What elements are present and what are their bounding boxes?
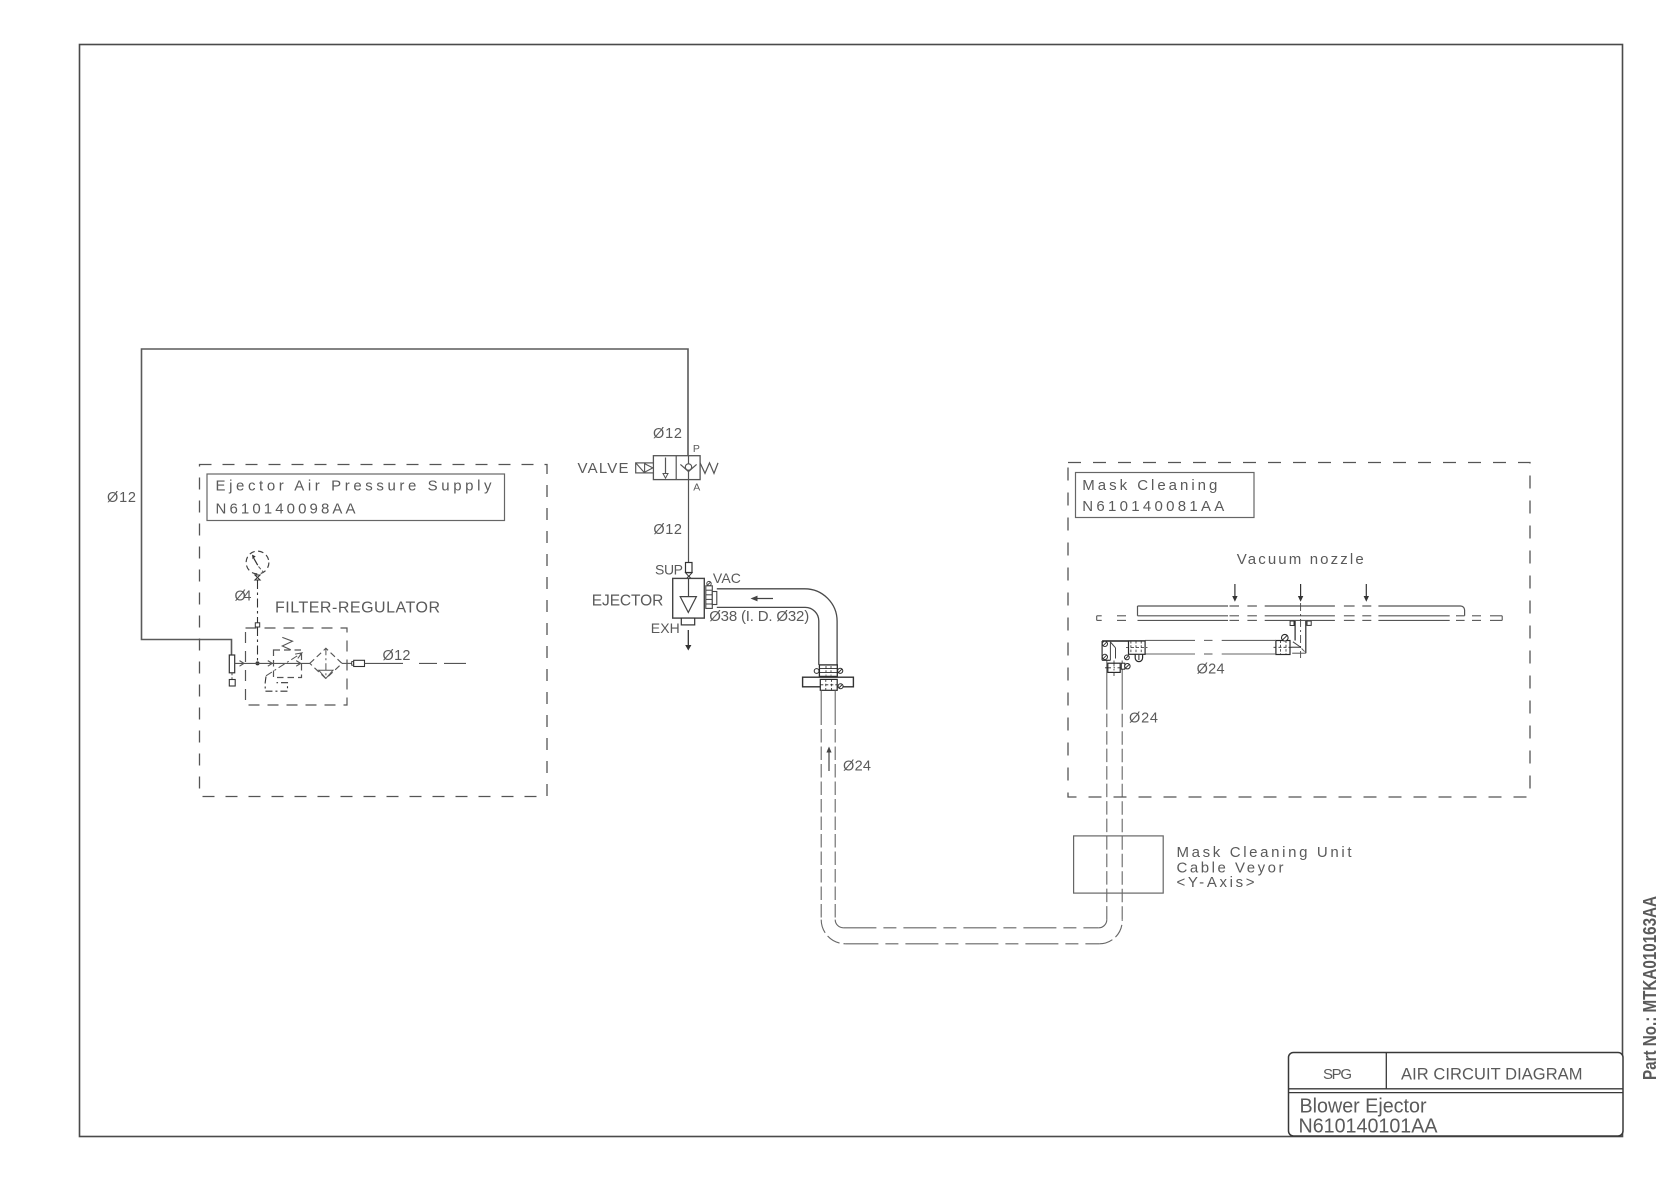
svg-text:VALVE: VALVE (578, 460, 629, 477)
svg-text:N610140101AA: N610140101AA (1299, 1116, 1439, 1138)
pipe D24 right riser (1107, 661, 1122, 920)
gauge port bowtie (255, 575, 260, 580)
center nozzle fitting (1290, 621, 1311, 653)
dashed box Ejector Air Pressure Supply (200, 465, 548, 797)
wire flow line through filter-regulator (235, 661, 310, 667)
pipe D38 vacuum hose (717, 589, 837, 665)
ejector body (673, 578, 705, 618)
label box Ejector Air Pressure Supply (207, 474, 505, 521)
pipe D24 down from flange (821, 690, 835, 919)
center nozzle centerline (1300, 603, 1302, 658)
svg-text:Ø24: Ø24 (843, 759, 871, 775)
left elbow clamp band (1125, 641, 1148, 662)
svg-text:Ø12: Ø12 (383, 648, 411, 664)
center fitting clamp (1274, 634, 1293, 654)
left elbow lower clamp (1105, 661, 1130, 677)
svg-text:VAC: VAC (713, 570, 741, 586)
pipe D24 bottom run (821, 920, 1122, 944)
cable veyor box (1074, 836, 1164, 893)
svg-text:<Y-Axis>: <Y-Axis> (1177, 874, 1255, 891)
svg-text:Ø12: Ø12 (653, 522, 682, 538)
mask plate bottom line (1097, 616, 1503, 621)
valve return spring (700, 463, 718, 474)
outlet fitting (342, 660, 365, 666)
wire main air supply hose (142, 349, 689, 656)
dashed box Mask Cleaning (1068, 463, 1530, 798)
svg-text:FILTER-REGULATOR: FILTER-REGULATOR (275, 600, 440, 617)
nozzle arrow 2 (1298, 584, 1303, 602)
svg-text:Ø4: Ø4 (235, 589, 252, 605)
filter symbol diamond (310, 648, 342, 678)
svg-text:A: A (693, 482, 700, 494)
svg-text:P: P (693, 443, 700, 455)
svg-text:SPG: SPG (1323, 1066, 1352, 1083)
valve 2/2 solenoid valve (653, 456, 700, 480)
flow arrow left (751, 596, 774, 602)
hose clamp lower (820, 679, 843, 690)
flow arrow up D24 (826, 747, 831, 772)
svg-text:Ø38 (I. D. Ø32): Ø38 (I. D. Ø32) (709, 608, 809, 625)
nozzle arrow 3 (1364, 584, 1369, 602)
svg-text:Ø24: Ø24 (1197, 661, 1225, 677)
dashed box filter-regulator unit (246, 628, 348, 705)
wire outlet line D12 (365, 662, 467, 664)
tee fitting air inlet (229, 655, 235, 686)
svg-text:Part No.: MTKA010163AA: Part No.: MTKA010163AA (1639, 896, 1660, 1080)
label box Mask Cleaning (1076, 473, 1255, 518)
svg-text:Vacuum nozzle: Vacuum nozzle (1237, 551, 1364, 568)
nozzle arrow 1 (1232, 584, 1237, 602)
svg-text:Ø12: Ø12 (653, 426, 682, 442)
left elbow fitting (1102, 641, 1145, 660)
pipe D24 horizontal (1145, 640, 1276, 654)
svg-text:Ø12: Ø12 (107, 490, 136, 506)
nozzle rail bar top (1138, 606, 1465, 616)
svg-text:Mask Cleaning Unit: Mask Cleaning Unit (1177, 844, 1353, 861)
nozzle rail bar bottom line (1097, 615, 1503, 617)
exhaust arrow (685, 630, 691, 651)
svg-text:Blower Ejector: Blower Ejector (1300, 1096, 1427, 1118)
pressure gauge (246, 551, 269, 574)
ejector EXH port (681, 618, 694, 625)
hose clamp upper (814, 665, 843, 677)
wire valve to ejector (688, 480, 690, 563)
svg-text:SUP: SUP (655, 562, 683, 578)
regulator drain loop (265, 677, 287, 692)
svg-text:Ø24: Ø24 (1129, 711, 1158, 727)
svg-text:EJECTOR: EJECTOR (592, 593, 664, 610)
ejector VAC fitting (706, 581, 717, 608)
regulator symbol (266, 637, 302, 677)
svg-text:AIR CIRCUIT DIAGRAM: AIR CIRCUIT DIAGRAM (1401, 1066, 1583, 1084)
title block (1289, 1053, 1624, 1137)
wire gauge line D4 (255, 580, 259, 665)
mounting flange plate (803, 677, 854, 687)
svg-text:EXH: EXH (651, 620, 680, 636)
ejector SUP port (686, 563, 693, 580)
valve solenoid pilot (636, 463, 654, 473)
